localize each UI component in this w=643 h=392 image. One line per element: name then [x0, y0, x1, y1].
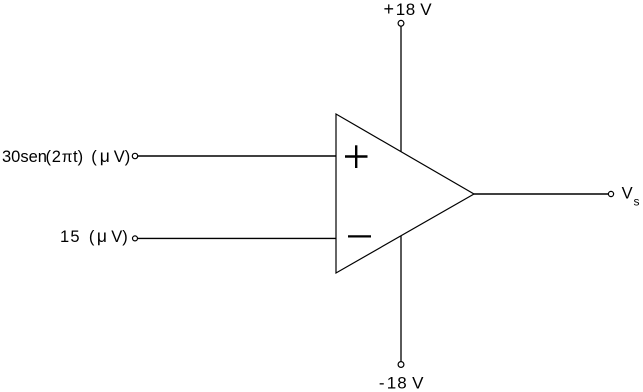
svg-text:18: 18 [396, 0, 416, 19]
svg-text:(: ( [91, 148, 97, 166]
svg-text:π: π [62, 149, 73, 166]
svg-text:s: s [634, 195, 640, 209]
terminal node: +18V supply [398, 20, 404, 26]
svg-text:(2: (2 [46, 148, 62, 166]
svg-text:(: ( [89, 228, 95, 246]
label 15 (uV) [60, 226, 128, 246]
svg-text:V): V) [111, 228, 128, 246]
wire inverting input [138, 237, 336, 239]
svg-text:30sen: 30sen [2, 148, 47, 166]
terminal node: 30sen input [132, 153, 137, 158]
svg-text:V: V [412, 374, 424, 392]
terminal node: Vs output [608, 191, 613, 196]
terminal node: -18V supply [398, 362, 404, 368]
svg-text:μ: μ [97, 226, 107, 246]
svg-text:V): V) [114, 148, 131, 166]
op-amp noninverting (+) input marker [345, 145, 368, 168]
wire output [474, 193, 608, 195]
svg-text:18: 18 [387, 374, 408, 392]
svg-text:V: V [420, 0, 432, 19]
label 30sen(2pi t) (uV) [2, 146, 130, 166]
svg-text:15: 15 [60, 228, 81, 246]
label -18 V [379, 374, 424, 392]
op-amp inverting (−) input marker [348, 235, 371, 237]
wire negative supply -18V [400, 236, 402, 362]
label +18 V [384, 0, 433, 19]
svg-text:V: V [622, 184, 633, 202]
wire noninverting input [138, 155, 336, 157]
svg-text:μ: μ [100, 146, 110, 166]
svg-text:-: - [379, 374, 385, 392]
svg-text:+: + [384, 0, 395, 19]
wire positive supply +18V [400, 27, 402, 152]
svg-text:t): t) [73, 148, 83, 166]
terminal node: 15 input [133, 236, 138, 241]
op-amp U1 [336, 114, 474, 273]
